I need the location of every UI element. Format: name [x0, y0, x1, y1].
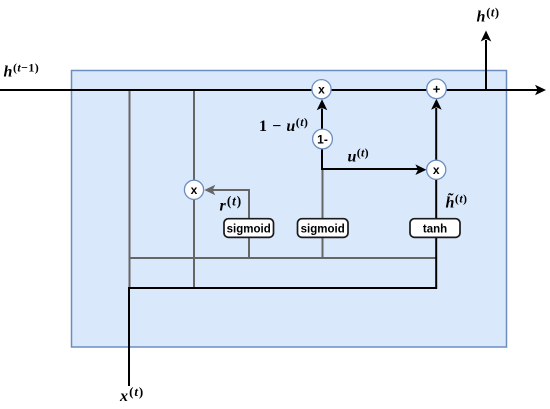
wire: sigmoid U output up (gray) [322, 169, 324, 219]
wire: h(t) output branch up arrow [485, 40, 487, 90]
op multiply X3 (reset) [184, 180, 203, 199]
wire: sigmoid U input bottom [322, 238, 324, 259]
wire: X2 down to tanh [435, 179, 437, 219]
wire: gray vertical tap A (h path left) [129, 90, 131, 289]
svg-text:h(t−1): h(t−1) [4, 61, 40, 81]
wire: X2 up to plus arrow [435, 108, 437, 161]
wire: gray horizontal bus (gate input) [129, 257, 437, 259]
wire: main h(t-1) horizontal line with right arrow [0, 89, 538, 91]
svg-text:x(t): x(t) [119, 384, 144, 405]
wire: gray vertical tap B through reset multiply [193, 90, 195, 289]
op multiply X2 [427, 160, 446, 179]
wire: junction below 1- circle [321, 149, 323, 171]
svg-text:1-: 1- [317, 132, 328, 146]
wire: 1- to multiply X1 arrow up [321, 109, 323, 130]
box tanh [410, 219, 460, 238]
op 1 minus [313, 129, 333, 149]
svg-text:+: + [433, 82, 441, 97]
box sigmoid R [224, 219, 274, 238]
svg-text:x: x [191, 183, 198, 197]
wire: black bottom bus [128, 287, 437, 289]
wire: x(t) input vertical [128, 287, 130, 386]
svg-text:x: x [318, 83, 325, 97]
GRU cell body rectangle [72, 71, 507, 348]
wire: u(t) horizontal to multiply X2 arrow [321, 168, 419, 170]
op multiply X1 [312, 80, 331, 99]
wire: sigmoid R input bottom [248, 238, 250, 259]
wire: sigmoid R output up + arrow into reset multiply [212, 190, 249, 219]
svg-text:sigmoid: sigmoid [301, 223, 345, 235]
box sigmoid U [298, 219, 349, 238]
svg-text:x: x [433, 163, 440, 177]
svg-text:tanh: tanh [423, 223, 447, 235]
wire: tanh down to black bus [435, 238, 437, 290]
svg-text:h(t): h(t) [477, 6, 500, 26]
svg-text:sigmoid: sigmoid [227, 223, 271, 235]
op add [427, 79, 447, 99]
